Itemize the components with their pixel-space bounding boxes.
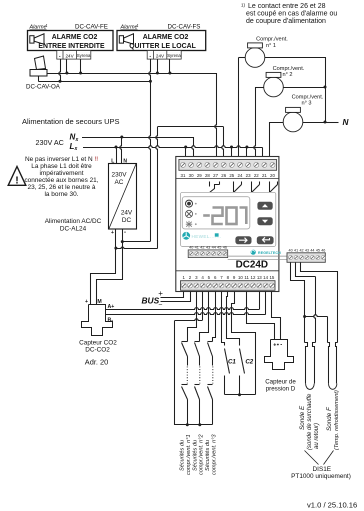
relay contact (21-20)	[269, 182, 271, 193]
svg-text:Alimentation AC/DC: Alimentation AC/DC	[45, 218, 102, 225]
svg-text:15: 15	[269, 275, 274, 280]
svg-text:DC-CAV-FE: DC-CAV-FE	[75, 24, 108, 31]
logo regel teal	[251, 250, 256, 255]
svg-text:Syrena: Syrena	[77, 53, 91, 58]
wire alarm1 syrena terminal down	[80, 60, 82, 74]
svg-text:230V: 230V	[112, 172, 128, 179]
svg-text:C2: C2	[245, 358, 253, 365]
svg-text:compr./vent. n°1: compr./vent. n°1	[186, 434, 192, 475]
button down	[257, 217, 272, 225]
svg-text:QUITTER LE LOCAL: QUITTER LE LOCAL	[129, 43, 196, 50]
wire ext terminal 40 to sonde E left	[291, 263, 305, 343]
svg-text:ALARME CO2: ALARME CO2	[52, 34, 98, 41]
controller DC24D body	[176, 157, 279, 292]
svg-text:44: 44	[310, 248, 314, 252]
svg-text:23: 23	[246, 173, 251, 178]
svg-text:−: −	[158, 302, 162, 309]
wire compressor1 right to N bus	[265, 58, 326, 123]
svg-text:46: 46	[321, 248, 325, 252]
svg-text:BUS: BUS	[142, 295, 160, 305]
svg-text:n° 1: n° 1	[266, 43, 276, 49]
safety switch column 3 (Securites compr 3)	[208, 341, 213, 343]
wire terminal 4 down joining return line	[202, 292, 204, 321]
svg-text:45: 45	[316, 248, 320, 252]
svg-text:-: -	[124, 230, 126, 236]
svg-text:L: L	[111, 158, 114, 164]
svg-text:25: 25	[229, 173, 234, 178]
safety switch column 1 (Securites compr 1)	[182, 341, 188, 343]
svg-text:la borne 30.: la borne 30.	[44, 191, 78, 198]
wire compressor2 right to N bus	[284, 87, 326, 89]
svg-text:+: +	[273, 342, 276, 348]
wire AL24 plus output down to CO2 sensor plus	[91, 230, 116, 305]
svg-text:41: 41	[195, 246, 199, 250]
svg-text:23, 25, 26 et le neutre à: 23, 25, 26 et le neutre à	[27, 184, 95, 191]
svg-text:Syrena: Syrena	[167, 53, 181, 58]
relay contact (23-22)	[251, 182, 253, 193]
svg-text:1: 1	[137, 24, 139, 28]
svg-text:42: 42	[299, 248, 303, 252]
svg-text:x: x	[74, 146, 78, 152]
icon fan on display	[185, 210, 192, 217]
svg-text:+: +	[85, 299, 88, 305]
wire compressor1 left down to terminal 24	[239, 57, 246, 59]
svg-text:Compr./vent.: Compr./vent.	[256, 37, 288, 43]
svg-text:31: 31	[181, 173, 186, 178]
compressor/fan 1 (Compr./vent. n 1)	[245, 48, 265, 68]
svg-text:compr./vent. n°3: compr./vent. n°3	[211, 434, 217, 475]
svg-text:(sonde de surchauffe: (sonde de surchauffe	[307, 393, 313, 450]
svg-text:40: 40	[189, 246, 193, 250]
svg-text:30: 30	[189, 173, 194, 178]
wire alarm2 minus down to AL24 minus output	[149, 59, 151, 241]
relay contact (25-24)	[233, 182, 235, 193]
wire terminal 2 to BUS minus stub	[161, 292, 191, 302]
svg-text:M: M	[97, 299, 101, 305]
warning triangle	[8, 167, 26, 186]
label securites compr 2 rotated	[192, 440, 198, 471]
svg-text:Compr./vent.: Compr./vent.	[292, 94, 324, 100]
wire compressor2 left down to terminal 22	[256, 87, 264, 89]
svg-text:C1: C1	[228, 358, 236, 365]
svg-text:44: 44	[212, 246, 216, 250]
alarm box DC-CAV-FE (ALARME CO2 ENTREE INTERDITE)	[28, 31, 114, 51]
svg-text:Capteur CO2: Capteur CO2	[79, 339, 117, 346]
wire Nx rail to terminal 30	[82, 137, 193, 139]
svg-text:DC-CO2: DC-CO2	[85, 346, 110, 353]
svg-text:43: 43	[206, 246, 210, 250]
wire ext terminal 42 to sonde F right	[301, 263, 338, 343]
svg-text:24: 24	[238, 173, 243, 178]
bracket DIS1E	[305, 451, 319, 465]
beacon lamp DC-CAV-OA	[35, 56, 46, 70]
wire terminal 5 down to safety switch column 2	[200, 292, 209, 342]
svg-text:10: 10	[238, 275, 243, 280]
wire compressor3 right to N bus + node N	[303, 122, 326, 124]
wire 24V rail (wire1) from beacon to terminal 27	[47, 73, 216, 75]
svg-text:DIS1E: DIS1E	[313, 466, 331, 473]
svg-text:41: 41	[294, 248, 298, 252]
svg-text:22: 22	[254, 173, 259, 178]
svg-text:Adr. 20: Adr. 20	[85, 358, 108, 367]
svg-text:La phase L1 doit être: La phase L1 doit être	[31, 163, 92, 170]
button enter	[257, 236, 274, 244]
external terminal strip 40..46	[287, 253, 325, 262]
wire Lx dot down to terminal 23	[246, 148, 248, 160]
wire alarm2 24V terminal down	[157, 60, 159, 74]
svg-text:PT1000 uniquement): PT1000 uniquement)	[291, 473, 351, 480]
svg-text:Alarme: Alarme	[120, 25, 138, 31]
horn icon alarm 2	[119, 36, 123, 43]
svg-text:-: -	[149, 53, 151, 59]
svg-text:est coupé en cas d'alarme ou: est coupé en cas d'alarme ou	[246, 11, 337, 18]
relay changeover contact (26-27-28)	[209, 182, 211, 187]
svg-text:24V: 24V	[121, 210, 133, 217]
svg-text:n° 2: n° 2	[282, 72, 292, 78]
controller bottom terminal strip 1..15	[181, 281, 276, 291]
wire terminal 7 down to contact C1	[222, 292, 225, 346]
probe sonde E body	[305, 343, 308, 384]
wire terminal 8 down to contact C2	[227, 292, 240, 346]
wire AL24 minus output down to CO2 sensor M	[97, 230, 123, 305]
wire Lx rail to terminals 31 25 23 21	[83, 146, 263, 148]
wire switch bottom bus	[175, 424, 213, 426]
svg-text:28: 28	[205, 173, 210, 178]
svg-text:Compr./vent.: Compr./vent.	[273, 66, 305, 72]
wire alarm1 24V terminal down	[66, 60, 68, 74]
svg-text:Sécurités du: Sécurités du	[180, 440, 186, 471]
probe sonde F body	[328, 343, 330, 384]
svg-text:29: 29	[197, 173, 202, 178]
wire bus B- from sensor to terminal 14	[105, 313, 265, 315]
controller small terminal strip 40..46	[188, 250, 228, 258]
compressor/fan 2 (Compr./vent. n 2)	[264, 77, 284, 97]
compressor/fan 3 (Compr./vent. n 3)	[283, 112, 303, 132]
icon alarm on display	[186, 200, 193, 207]
wire minus rail (wire2) beacon bottom	[38, 77, 40, 82]
svg-text:v1.0 / 25.10.16: v1.0 / 25.10.16	[307, 501, 357, 510]
svg-text:Sécurités du: Sécurités du	[192, 440, 198, 471]
svg-text:42: 42	[200, 246, 204, 250]
alarm2 terminal row (- / 24V / Syrena)	[147, 51, 181, 60]
svg-text:24V: 24V	[156, 53, 165, 58]
svg-text:de coupure d'alimentation: de coupure d'alimentation	[246, 18, 326, 25]
svg-text:Sonde F: Sonde F	[326, 406, 333, 431]
svg-text:26: 26	[221, 173, 226, 178]
svg-text:ALARME CO2: ALARME CO2	[143, 34, 189, 41]
svg-text:Alimentation de secours UPS: Alimentation de secours UPS	[22, 117, 120, 126]
button up	[257, 202, 272, 210]
svg-text:46: 46	[223, 246, 227, 250]
wire Lx dot down to terminal 25	[231, 148, 233, 160]
svg-text:(Temp. refroidissement): (Temp. refroidissement)	[334, 390, 340, 450]
svg-text:DC-CAV-OA: DC-CAV-OA	[26, 84, 61, 91]
wire terminal 11 down to pressure sensor plus	[247, 292, 275, 340]
svg-text:Alarme: Alarme	[29, 25, 47, 31]
svg-text:+: +	[111, 230, 114, 236]
button prog	[235, 236, 251, 244]
wire terminal 3 down to safety switch column 1	[188, 292, 197, 342]
wire alarm1 minus terminal down	[59, 59, 61, 81]
svg-text:REGELTECH: REGELTECH	[258, 251, 281, 255]
wire terminal26 riser to AL24 plus output	[156, 127, 158, 248]
svg-text:-: -	[280, 342, 282, 348]
contact C2	[240, 349, 245, 374]
svg-text:connectée aux bornes 21,: connectée aux bornes 21,	[24, 177, 98, 184]
svg-text:24V: 24V	[66, 53, 75, 58]
wire terminal 9 down to C1-C2 bus return	[232, 292, 256, 395]
svg-text:13: 13	[257, 275, 262, 280]
svg-text:-: -	[59, 53, 61, 59]
wire branch to sonde F left	[305, 315, 328, 317]
alarm box DC-CAV-FS (ALARME CO2 QUITTER LE LOCAL)	[117, 31, 206, 51]
icon snowflake on display	[186, 221, 192, 228]
svg-text:1) Le contact entre 26 et 28: 1) Le contact entre 26 et 28	[241, 2, 326, 10]
N stub wire	[326, 122, 339, 124]
svg-text:Sécurités du: Sécurités du	[205, 440, 211, 471]
wire alarm2 syrena terminal down	[169, 60, 171, 74]
svg-text:230V AC: 230V AC	[36, 138, 64, 147]
svg-text:ENTREE INTERDITE: ENTREE INTERDITE	[38, 43, 105, 50]
controller LCD display panel	[182, 197, 250, 229]
horn icon alarm 1	[30, 36, 34, 43]
seven segment reading -207	[203, 208, 246, 225]
label securites compr 3 rotated	[205, 440, 211, 471]
svg-text:27: 27	[213, 173, 218, 178]
svg-text:14: 14	[263, 275, 268, 280]
svg-text:12: 12	[251, 275, 256, 280]
wire C1 C2 bottom bus	[225, 394, 256, 396]
svg-text:21: 21	[262, 173, 267, 178]
svg-text:DC-CAV-FS: DC-CAV-FS	[168, 24, 201, 31]
svg-text:n° 3: n° 3	[301, 101, 311, 107]
svg-text:DC: DC	[122, 217, 132, 224]
svg-text:!: !	[15, 175, 19, 187]
power supply AC/DC converter DC-AL24	[109, 164, 137, 230]
svg-text:45: 45	[217, 246, 221, 250]
label securites compr 1 rotated	[180, 440, 186, 471]
svg-text:1: 1	[46, 24, 48, 28]
contact C1	[225, 349, 230, 374]
wire L feed into AL24	[116, 148, 118, 164]
wire terminal 15 down to pressure sensor minus	[272, 292, 281, 340]
label sonde F rotated	[326, 406, 333, 431]
svg-text:20: 20	[270, 173, 275, 178]
wire bus A+ from sensor to terminal 13	[105, 308, 259, 310]
svg-text:Capteur de: Capteur de	[265, 378, 296, 385]
wire ext terminal 41 to sonde E right	[296, 263, 316, 277]
svg-text:DC-AL24: DC-AL24	[60, 225, 87, 232]
svg-text:+: +	[158, 289, 163, 298]
wire terminal 6 down to safety switch column 3	[213, 292, 216, 342]
svg-text:AC: AC	[115, 179, 124, 186]
alarm1 terminal row (- / 24V / Syrena)	[57, 51, 91, 60]
wire N feed into AL24	[120, 137, 122, 164]
wire return from switch bus up to terminal 4	[175, 321, 188, 425]
CO2 sensor DC-CO2 body	[82, 305, 113, 336]
logo hewel on faceplate	[182, 232, 190, 240]
svg-text:40: 40	[289, 248, 293, 252]
safety switch column 2 (Securites compr 2)	[195, 341, 200, 343]
wire link cable to external strip (pair)	[228, 255, 287, 257]
svg-text:N: N	[123, 158, 127, 164]
svg-text:43: 43	[305, 248, 309, 252]
wire terminal 1 to BUS plus stub	[161, 292, 184, 298]
svg-text:B-: B-	[108, 317, 114, 323]
wire Lx dot down to terminal 31	[185, 148, 187, 160]
svg-text:x: x	[75, 137, 79, 143]
label sonde E rotated	[299, 405, 306, 430]
pressure sensor capteur de pression D body	[265, 340, 294, 370]
svg-text:11: 11	[244, 275, 249, 280]
svg-text:pression D: pression D	[266, 386, 296, 393]
wire compressor3 left down to terminal 20	[270, 123, 284, 160]
svg-text:DC24D: DC24D	[236, 260, 268, 271]
svg-text:compr./vent. n°2: compr./vent. n°2	[199, 434, 205, 475]
svg-text:Sonde E: Sonde E	[299, 405, 306, 430]
svg-text:au retour): au retour)	[314, 423, 320, 449]
controller faceplate	[181, 192, 276, 246]
controller top terminal strip 31..20	[179, 160, 277, 171]
